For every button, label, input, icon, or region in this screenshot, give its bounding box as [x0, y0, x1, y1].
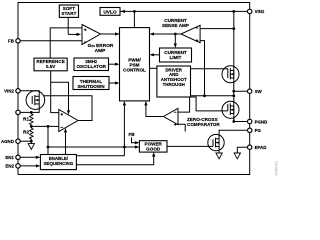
svg-text:START: START	[61, 11, 76, 16]
svg-text:R1: R1	[23, 117, 29, 122]
svg-text:SEQUENCING: SEQUENCING	[44, 161, 74, 166]
svg-text:PG: PG	[255, 128, 262, 133]
svg-text:VIN1: VIN1	[255, 9, 265, 14]
svg-text:FB: FB	[128, 132, 135, 137]
svg-text:R2: R2	[23, 130, 29, 135]
svg-text:EN1: EN1	[5, 155, 14, 160]
svg-text:FB: FB	[8, 38, 14, 43]
svg-text:EPAD: EPAD	[255, 145, 267, 150]
svg-text:VIN2: VIN2	[4, 88, 14, 93]
svg-text:OSCILLATOR: OSCILLATOR	[76, 64, 106, 69]
svg-text:SHUTDOWN: SHUTDOWN	[77, 84, 105, 89]
svg-text:AGND: AGND	[1, 139, 14, 144]
svg-text:0.5V: 0.5V	[46, 64, 56, 69]
svg-text:GOOD: GOOD	[146, 146, 161, 151]
svg-text:SENSE AMP: SENSE AMP	[162, 23, 189, 28]
svg-text:SW: SW	[255, 89, 263, 94]
svg-text:COMPARATOR: COMPARATOR	[187, 122, 220, 127]
svg-text:09440-001: 09440-001	[274, 161, 278, 176]
svg-text:UVLO: UVLO	[103, 9, 117, 15]
svg-text:CONTROL: CONTROL	[123, 68, 146, 73]
svg-text:THROUGH: THROUGH	[163, 82, 185, 87]
svg-text:LIMIT: LIMIT	[170, 55, 182, 60]
svg-text:PGND: PGND	[255, 119, 268, 124]
svg-text:EN2: EN2	[5, 164, 14, 169]
svg-text:AMP: AMP	[95, 48, 106, 54]
